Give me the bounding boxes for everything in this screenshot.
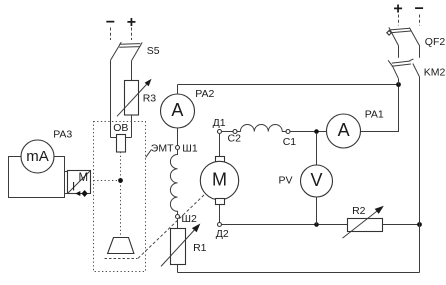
wire loop PA3	[9, 157, 65, 198]
wire D2 bus to R2	[222, 224, 348, 226]
svg-text:V: V	[310, 170, 322, 190]
svg-text:C1: C1	[283, 136, 297, 148]
wire PA2 top stub	[177, 85, 179, 95]
wire - rail right side	[419, 77, 421, 273]
node + bus junction	[396, 82, 401, 87]
svg-text:Ш1: Ш1	[182, 142, 198, 154]
svg-text:C2: C2	[228, 133, 242, 145]
motor M1	[200, 161, 238, 199]
wire R2 to - rail	[383, 224, 420, 226]
wire S5 right pole down to R3	[131, 61, 133, 81]
svg-text:PV: PV	[279, 175, 293, 187]
dashed shaft under bell	[105, 258, 138, 260]
wire motor to D2	[219, 205, 221, 223]
winding Sh1-Sh2 (shunt field)	[170, 150, 177, 215]
svg-text:R3: R3	[143, 92, 157, 104]
ammeter PA1	[327, 114, 361, 148]
node torque pickup (dot)	[118, 178, 123, 183]
resistor R2 (rheostat)	[343, 206, 384, 238]
wire PV top	[316, 134, 318, 165]
dashed link to torque converter	[94, 180, 119, 182]
svg-text:S5: S5	[147, 45, 160, 57]
wire QF2 to KM2 right	[419, 46, 421, 58]
motor brush top	[216, 157, 225, 163]
svg-text:M: M	[79, 172, 89, 184]
terminal Sh2	[176, 215, 180, 219]
milliammeter PA3	[21, 140, 54, 173]
motor brush bottom	[216, 199, 225, 205]
svg-text:Ш2: Ш2	[181, 213, 197, 225]
wire bottom bus	[178, 272, 420, 274]
winding OV (brake coil)	[117, 135, 126, 153]
wire PA3 to converter (top stub)	[65, 171, 68, 173]
svg-text:Д1: Д1	[213, 117, 226, 129]
supply stub right minus (dashed)	[419, 15, 421, 26]
node - rail junction	[417, 222, 422, 227]
bell (brake shoe)	[108, 238, 134, 254]
leader line to EMT label	[146, 150, 152, 158]
svg-text:ОВ: ОВ	[113, 122, 128, 134]
supply stub left (dashed)	[110, 28, 112, 41]
svg-text:KM2: KM2	[424, 67, 446, 79]
voltmeter PV	[301, 165, 333, 197]
svg-text:A: A	[338, 120, 350, 140]
inductor C2-C1 (series winding)	[237, 125, 286, 132]
svg-text:Д2: Д2	[216, 228, 229, 240]
wire R3 to OV box	[131, 115, 133, 138]
wire S5 left pole down to OV box	[110, 60, 112, 137]
resistor R3 (rheostat)	[117, 79, 152, 117]
svg-text:R2: R2	[352, 205, 366, 217]
supply stub right plus (dashed)	[398, 15, 400, 26]
wire OV box bottom right	[126, 137, 132, 139]
resistor R1 (rheostat)	[161, 224, 200, 267]
terminal C1	[286, 130, 290, 134]
wire KM2 left pole to + junction	[398, 79, 400, 85]
wire PV bottom	[316, 197, 318, 225]
wire converter output to PA3 with arrow	[65, 190, 91, 197]
node PV tap (junction dot)	[314, 129, 319, 134]
wire PA1 to + rail	[361, 85, 399, 132]
wire D1 to C2	[222, 131, 233, 133]
wire C1 to PA1	[290, 131, 327, 133]
svg-text:QF2: QF2	[425, 36, 446, 48]
svg-text:R1: R1	[193, 242, 207, 254]
terminal C2	[233, 130, 237, 134]
terminal D2	[218, 223, 222, 227]
switch S5	[111, 42, 143, 61]
svg-text:PA3: PA3	[53, 128, 72, 140]
wire R1 to bottom bus	[177, 265, 179, 273]
supply stub right (dashed)	[131, 28, 133, 41]
mechanical coupling (dashed vertical coil to bell)	[120, 152, 122, 237]
ammeter PA2	[161, 94, 195, 128]
svg-text:I: I	[72, 181, 75, 193]
wire top bus (+ rail to PA2)	[178, 84, 399, 86]
svg-text:A: A	[171, 100, 183, 120]
contactor KM2	[388, 59, 419, 79]
svg-text:PA1: PA1	[365, 109, 384, 121]
terminal D1	[218, 130, 222, 134]
wire PA2 to Sh1	[177, 128, 179, 145]
svg-text:ЭМТ: ЭМТ	[151, 142, 174, 154]
wire OV box bottom left	[111, 137, 117, 139]
breaker QF2	[387, 27, 420, 46]
node PV bottom junction	[314, 222, 319, 227]
terminal Sh1	[176, 146, 180, 150]
torque-current converter M/I	[68, 171, 91, 194]
dashed enclosure EMT brake	[94, 122, 146, 272]
wire D1 to motor	[219, 134, 221, 157]
wire Sh2 to R1	[177, 219, 179, 229]
dashed shaft coupling to motor	[138, 194, 205, 258]
wire QF2 to KM2 left	[398, 46, 400, 58]
svg-text:PA2: PA2	[195, 88, 214, 100]
svg-text:mA: mA	[26, 148, 49, 165]
svg-text:M: M	[212, 169, 227, 189]
